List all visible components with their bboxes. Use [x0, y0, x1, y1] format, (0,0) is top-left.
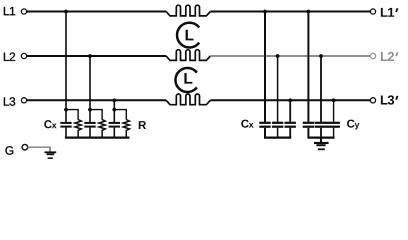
wire drop L2 to node 2 [89, 56, 91, 122]
label Cy [347, 120, 359, 130]
capacitor Cy1 bottom plate [303, 126, 314, 128]
wire L2 left segment [27, 55, 167, 57]
wire drop L3 to node 3 [113, 100, 115, 122]
junction dot node 1 [64, 108, 68, 112]
wire G horizontal (gray) [28, 146, 50, 148]
label R (discharge resistors) [139, 121, 146, 129]
capacitor Cx3 bottom plate [109, 126, 120, 128]
junction dot L3' / Cy drop [332, 98, 336, 102]
junction dot L1' / Cy drop [307, 10, 311, 14]
junction dot L1' / Cx drop [263, 10, 267, 14]
capacitor Cx3 top plate [109, 122, 120, 124]
node G terminal label [5, 146, 13, 155]
choke core inductance label L (lower) [184, 73, 192, 84]
node L2' terminal label (gray) [381, 52, 399, 61]
node L3 terminal label [4, 97, 15, 106]
wire ground stub from Cy bus [320, 138, 322, 142]
choke core inductance label L (upper) [186, 30, 194, 41]
capacitor Cy1 top plate [303, 122, 314, 124]
junction dot L2' / Cy drop [319, 54, 323, 58]
wire L3 right segment [210, 99, 370, 101]
capacitor Cx2 bottom lead [89, 128, 91, 138]
wire drop L2' to Cy2 [320, 56, 322, 122]
capacitor Cy3 bottom lead [333, 128, 335, 138]
wire drop L3' to Cy3 [333, 100, 335, 122]
choke core symbol U1 (circle, gap right) [177, 23, 199, 48]
wire drop L1' to Cy1 [307, 12, 309, 122]
label Cx (left group) [44, 120, 56, 128]
capacitor Cx4 top plate [259, 122, 270, 124]
resistor R1 zigzag [75, 120, 81, 138]
wire drop L1' to Cx4 [264, 12, 266, 122]
wire bottom bus (left star point) [65, 137, 130, 139]
ground symbol (G) bar 1 [45, 151, 57, 153]
wire G vertical (gray) [49, 146, 51, 151]
capacitor Cy2 bottom lead [320, 128, 322, 138]
label Cx (right group) [241, 120, 253, 128]
choke core symbol U2 (circle, gap right) [175, 68, 196, 92]
node L2 terminal label [4, 53, 15, 61]
wire bottom bus (Cy star point) [307, 137, 334, 139]
wire L2 right segment (gray) [210, 55, 370, 57]
capacitor Cx1 bottom plate [60, 126, 71, 128]
junction dot L3 / Cx drop [112, 98, 116, 102]
junction dot L2 / Cx drop [88, 54, 92, 58]
node L1 terminal label [4, 7, 15, 15]
resistor R2 zigzag [99, 120, 105, 138]
wire branch node2 to R2 [90, 110, 102, 120]
ground symbol (G) bar 2 [47, 153, 55, 155]
junction dot L2' / Cx drop [276, 54, 280, 58]
inductor winding W3 (phase L3) [166, 94, 210, 105]
capacitor Cx5 bottom plate [272, 126, 283, 128]
capacitor Cx4 bottom lead [264, 128, 266, 138]
junction dot L3' / Cx drop [288, 98, 292, 102]
capacitor Cx3 bottom lead [113, 128, 115, 138]
node L1' terminal label [381, 8, 399, 17]
wire drop L3' to Cx6 [289, 100, 291, 122]
node L3' terminal label [381, 95, 399, 104]
ground symbol (Cy) bar 1 [314, 142, 329, 144]
wire L3 left segment [27, 99, 167, 101]
node L2' output terminal (gray) [370, 53, 375, 58]
node L1 input terminal [21, 9, 26, 14]
resistor R3 zigzag [123, 120, 129, 138]
ground symbol (Cy) bar 3 [318, 148, 325, 150]
capacitor Cx5 top plate [272, 122, 283, 124]
wire L1 right segment [210, 11, 370, 13]
capacitor Cx2 top plate [84, 122, 95, 124]
capacitor Cy1 bottom lead [307, 128, 309, 138]
junction dot node 3 [112, 108, 116, 112]
capacitor Cx1 top plate [60, 122, 71, 124]
capacitor Cx6 bottom lead [289, 128, 291, 138]
ground symbol (G) bar 3 [48, 157, 53, 159]
capacitor Cx6 bottom plate [285, 126, 296, 128]
junction dot node 2 [88, 108, 92, 112]
capacitor Cx6 top plate [285, 122, 296, 124]
wire drop L2' to Cx5 [277, 56, 279, 122]
node L3 input terminal [21, 98, 26, 103]
ground symbol (Cy) bar 2 [316, 144, 325, 146]
junction dot L1 / Cx drop [64, 10, 68, 14]
wire branch node3 to R3 [114, 110, 126, 120]
wire L1 left segment [27, 11, 167, 13]
wire bottom bus (right Cx star point) [264, 137, 291, 139]
inductor winding W2 (phase L2) [166, 50, 210, 61]
wire branch node1 to R1 [66, 110, 78, 120]
capacitor Cx4 bottom plate [259, 126, 270, 128]
capacitor Cx1 bottom lead [65, 128, 67, 138]
inductor winding W1 (phase L1) [166, 5, 210, 16]
wire drop L1 to node 1 [65, 12, 67, 123]
capacitor Cy2+Cy3 bottom plate (merged) [315, 126, 340, 128]
node L1' output terminal [370, 9, 375, 14]
capacitor Cx2 bottom plate [84, 126, 95, 128]
capacitor Cx5 bottom lead [277, 128, 279, 138]
node L3' output terminal [370, 98, 375, 103]
node L2 input terminal [21, 53, 26, 58]
capacitor Cy2+Cy3 top plate (merged) [315, 122, 340, 124]
node G input terminal [22, 144, 28, 150]
